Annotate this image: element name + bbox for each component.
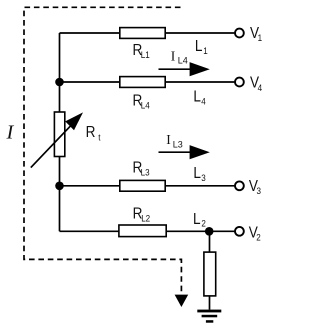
terminal V3 circle	[235, 181, 244, 190]
wire branch L4	[60, 81, 235, 83]
node junction dot L4 tap	[55, 78, 64, 87]
current arrow IL4 shaft	[159, 68, 192, 70]
resistor RL2 body	[119, 225, 166, 237]
terminal V1 circle	[235, 29, 244, 38]
label RL1	[133, 42, 150, 60]
svg-text:L: L	[195, 38, 203, 55]
dashed path arrowhead	[175, 295, 189, 307]
resistor Rt variable arrow shaft	[31, 125, 72, 168]
svg-text:2: 2	[201, 218, 206, 229]
resistor ballast body	[204, 252, 216, 296]
svg-text:2: 2	[256, 232, 261, 243]
terminal V2 circle	[235, 227, 244, 236]
label V4	[250, 75, 262, 93]
svg-text:R: R	[86, 124, 96, 141]
terminal V4 circle	[235, 78, 244, 87]
current arrow IL4 head	[190, 62, 210, 76]
label L2	[193, 211, 206, 229]
wire ballast top	[209, 231, 211, 252]
label V2	[249, 224, 261, 242]
svg-text:1: 1	[203, 45, 208, 56]
svg-text:4: 4	[258, 82, 263, 93]
label RL2	[133, 206, 151, 224]
svg-text:I: I	[6, 121, 15, 143]
svg-text:L: L	[193, 89, 201, 106]
svg-text:L3: L3	[141, 167, 150, 178]
svg-text:L: L	[193, 165, 201, 182]
svg-text:3: 3	[201, 172, 206, 183]
label IL3	[166, 132, 183, 149]
current arrow IL3 shaft	[159, 151, 192, 153]
resistor RL4 body	[120, 77, 165, 88]
label IL4	[171, 48, 188, 65]
wire branch L1	[60, 32, 235, 34]
wire main vertical bus	[59, 33, 61, 231]
label V1	[250, 25, 262, 43]
svg-text:1: 1	[258, 32, 263, 43]
label RL3	[133, 159, 150, 177]
wire branch L3	[60, 185, 235, 187]
svg-text:I: I	[171, 48, 176, 63]
label L4	[193, 89, 205, 107]
svg-text:L: L	[193, 211, 201, 228]
current arrow IL3 head	[190, 145, 210, 159]
svg-text:L2: L2	[141, 213, 150, 224]
wire ballast bottom	[209, 296, 211, 310]
node junction dot L2 ballast tap	[205, 227, 214, 236]
svg-text:L4: L4	[141, 100, 150, 111]
resistor RL3 body	[120, 180, 165, 191]
svg-text:I: I	[166, 132, 171, 147]
svg-text:4: 4	[201, 96, 206, 107]
label L3	[193, 165, 205, 183]
ground	[197, 310, 221, 323]
svg-text:L1: L1	[141, 49, 150, 60]
label L1	[195, 38, 208, 56]
svg-text:3: 3	[257, 185, 262, 196]
label V3	[249, 178, 261, 196]
wire branch L2	[60, 230, 235, 232]
svg-text:L3: L3	[173, 139, 183, 149]
resistor Rt variable arrowhead	[65, 112, 83, 130]
dashed current loop path	[24, 7, 181, 295]
resistor RL1 body	[120, 28, 165, 39]
label Rt	[86, 124, 101, 142]
label RL4	[133, 93, 150, 111]
node junction dot L3 tap	[55, 182, 64, 191]
resistor Rt body	[54, 112, 64, 157]
svg-text:L4: L4	[178, 56, 188, 66]
